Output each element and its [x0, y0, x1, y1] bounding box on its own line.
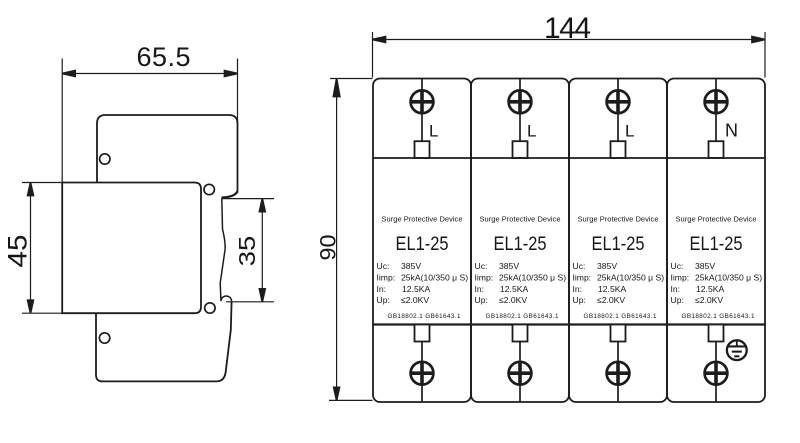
svg-text:In:: In: — [475, 284, 485, 294]
svg-text:Uc:: Uc: — [475, 261, 488, 271]
svg-text:Iimp:: Iimp: — [573, 272, 592, 282]
svg-text:GB18802.1 GB61643.1: GB18802.1 GB61643.1 — [486, 313, 559, 320]
horizontal divider above bottom terminals — [373, 323, 765, 325]
module 4 bottom terminal wire — [715, 342, 717, 403]
svg-text:Up:: Up: — [377, 295, 390, 305]
module 2 body outline — [471, 79, 569, 403]
module 3 bottom terminal wire — [617, 342, 619, 403]
side view: DIN-rail clip top lip — [222, 191, 238, 197]
module 4 body outline — [667, 79, 765, 403]
svg-text:EL1-25: EL1-25 — [690, 234, 743, 255]
dimension 90 extension lines — [330, 78, 373, 80]
module 3 top terminal screw head — [607, 90, 630, 113]
svg-text:Surge Protective Device: Surge Protective Device — [676, 214, 757, 223]
module 2 bottom terminal wire — [519, 342, 521, 403]
svg-text:GB18802.1 GB61643.1: GB18802.1 GB61643.1 — [682, 313, 755, 320]
svg-text:Uc:: Uc: — [573, 261, 586, 271]
module 4 top terminal screw head — [705, 90, 728, 113]
svg-text:Iimp:: Iimp: — [377, 272, 396, 282]
dimension 144 right extension line — [764, 32, 766, 78]
side view: rear housing bottom section outline — [96, 301, 232, 381]
svg-text:385V: 385V — [597, 261, 617, 271]
svg-text:Up:: Up: — [671, 295, 684, 305]
svg-text:In:: In: — [377, 284, 387, 294]
module 2 top terminal screw head — [509, 90, 532, 113]
svg-text:25kA(10/350 μ S): 25kA(10/350 μ S) — [597, 272, 664, 282]
dimension 65.5 left extension line — [61, 59, 63, 183]
module 3 bottom terminal clamp — [611, 325, 626, 342]
svg-text:35: 35 — [234, 236, 260, 267]
module 2 bottom terminal clamp — [513, 325, 528, 342]
module 4 bottom terminal clamp — [709, 325, 724, 342]
svg-text:12.5KA: 12.5KA — [696, 284, 724, 294]
svg-text:12.5KA: 12.5KA — [500, 284, 528, 294]
svg-text:In:: In: — [573, 284, 583, 294]
svg-text:L: L — [429, 122, 438, 141]
module 2 bottom terminal screw head — [509, 362, 532, 385]
svg-text:385V: 385V — [401, 261, 421, 271]
module 3 bottom terminal screw head — [607, 362, 630, 385]
module 1 body outline — [373, 79, 471, 403]
svg-text:65.5: 65.5 — [137, 42, 191, 72]
svg-text:Uc:: Uc: — [671, 261, 684, 271]
svg-text:EL1-25: EL1-25 — [396, 234, 449, 255]
module 2 top terminal wire — [519, 79, 521, 142]
module 3 body outline — [569, 79, 667, 403]
dimension 144 left extension line — [372, 32, 374, 78]
module 3 top terminal clamp — [611, 141, 626, 158]
svg-text:25kA(10/350 μ S): 25kA(10/350 μ S) — [401, 272, 468, 282]
svg-text:25kA(10/350 μ S): 25kA(10/350 μ S) — [499, 272, 566, 282]
horizontal divider below top terminals — [373, 157, 765, 159]
svg-text:Uc:: Uc: — [377, 261, 390, 271]
dimension 35 line with arrows — [261, 199, 263, 302]
svg-text:Iimp:: Iimp: — [671, 272, 690, 282]
dimension 35 extension lines — [222, 198, 274, 200]
svg-text:GB18802.1 GB61643.1: GB18802.1 GB61643.1 — [584, 313, 657, 320]
svg-text:≤2.0KV: ≤2.0KV — [695, 295, 723, 305]
side view: DIN-rail clip right edge (wavy) — [220, 198, 225, 301]
module 4 top terminal clamp — [709, 141, 724, 158]
module 4 top terminal wire — [715, 79, 717, 142]
svg-text:EL1-25: EL1-25 — [592, 234, 645, 255]
dimension 45 extension lines — [22, 182, 62, 184]
svg-text:GB18802.1 GB61643.1: GB18802.1 GB61643.1 — [388, 313, 461, 320]
dimension 65.5 right extension line — [237, 59, 239, 123]
svg-text:Surge Protective Device: Surge Protective Device — [480, 214, 561, 223]
module 2 top terminal clamp — [513, 141, 528, 158]
svg-text:385V: 385V — [695, 261, 715, 271]
dimension 45 line with arrows — [30, 183, 32, 314]
module 1 top terminal wire — [421, 79, 423, 142]
svg-text:12.5KA: 12.5KA — [598, 284, 626, 294]
dimension 90 line with arrows — [336, 79, 338, 401]
svg-text:In:: In: — [671, 284, 681, 294]
side view: front module block (square face) — [62, 183, 201, 314]
earth ground symbol on module 4 — [727, 340, 747, 360]
module 1 top terminal screw head — [411, 90, 434, 113]
screw hole bottom-left — [99, 333, 109, 343]
side view: DIN-rail clip bottom hook arc — [221, 296, 232, 301]
module 1 bottom terminal screw head — [411, 362, 434, 385]
svg-text:25kA(10/350 μ S): 25kA(10/350 μ S) — [695, 272, 762, 282]
svg-text:45: 45 — [2, 235, 32, 268]
svg-text:385V: 385V — [499, 261, 519, 271]
svg-text:12.5KA: 12.5KA — [402, 284, 430, 294]
svg-text:Surge Protective Device: Surge Protective Device — [578, 214, 659, 223]
dimension 65.5 line with arrows — [62, 73, 237, 75]
svg-text:≤2.0KV: ≤2.0KV — [401, 295, 429, 305]
svg-text:N: N — [725, 121, 738, 141]
svg-text:L: L — [527, 122, 536, 141]
svg-text:Up:: Up: — [475, 295, 488, 305]
svg-text:Up:: Up: — [573, 295, 586, 305]
svg-text:≤2.0KV: ≤2.0KV — [499, 295, 527, 305]
svg-text:Iimp:: Iimp: — [475, 272, 494, 282]
screw hole upper-right — [204, 184, 214, 194]
side view: rear housing top section outline — [97, 115, 238, 192]
module 1 bottom terminal clamp — [415, 325, 430, 342]
dimension 144 line with arrows — [373, 39, 766, 41]
svg-text:L: L — [625, 122, 634, 141]
svg-text:EL1-25: EL1-25 — [494, 234, 547, 255]
module 4 bottom terminal screw head — [705, 362, 728, 385]
svg-text:≤2.0KV: ≤2.0KV — [597, 295, 625, 305]
module 1 bottom terminal wire — [421, 342, 423, 403]
screw hole lower-right — [205, 303, 215, 313]
svg-text:90: 90 — [316, 235, 341, 261]
svg-text:Surge Protective Device: Surge Protective Device — [382, 214, 463, 223]
screw hole top-left — [100, 154, 110, 164]
module 3 top terminal wire — [617, 79, 619, 142]
module 1 top terminal clamp — [415, 141, 430, 158]
